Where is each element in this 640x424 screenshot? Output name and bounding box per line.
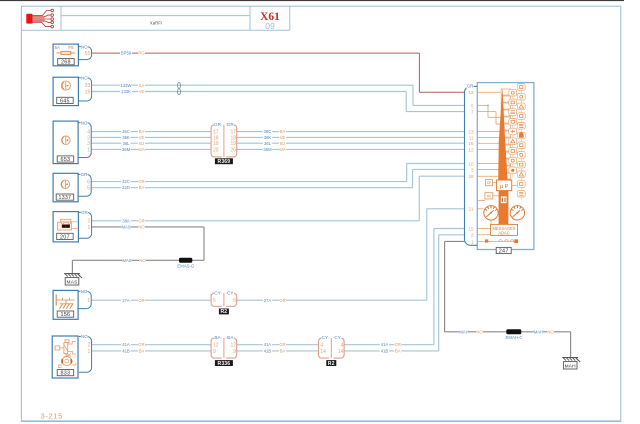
instrument cluster 247 <box>465 83 534 250</box>
svg-text:38A: 38A <box>122 218 130 223</box>
svg-text:19: 19 <box>85 89 91 95</box>
svg-text:GR: GR <box>81 172 89 177</box>
svg-text:36M: 36M <box>263 147 272 152</box>
svg-text:13: 13 <box>468 90 474 96</box>
svg-text:NO: NO <box>476 329 483 334</box>
svg-text:41A: 41A <box>122 342 130 347</box>
svg-text:NO: NO <box>138 225 145 230</box>
wire 41B BA from 833 pin1 to 247 pin2 <box>92 235 465 354</box>
svg-text:33: 33 <box>85 83 91 89</box>
svg-text:NO: NO <box>139 258 146 263</box>
svg-text:2: 2 <box>471 233 474 239</box>
svg-text:32D: 32D <box>122 185 130 190</box>
svg-text:36K: 36K <box>264 135 272 140</box>
wire 27A OR from 156 to 247 pin21 <box>92 209 465 303</box>
svg-text:NO: NO <box>81 44 88 49</box>
svg-text:BA: BA <box>214 335 221 340</box>
svg-text:NO: NO <box>81 334 88 339</box>
component 156 <box>53 289 91 320</box>
svg-text:10: 10 <box>468 161 474 167</box>
svg-text:MAS: MAS <box>121 225 130 230</box>
top black strip <box>0 0 624 1</box>
svg-text:GR: GR <box>395 342 401 347</box>
svg-text:MAS: MAS <box>122 258 131 263</box>
svg-text:F5: F5 <box>68 45 74 50</box>
svg-text:41B: 41B <box>122 348 130 353</box>
svg-text:ADAC: ADAC <box>498 230 509 235</box>
svg-text:653: 653 <box>60 157 70 163</box>
svg-text:MAH: MAH <box>565 363 577 369</box>
svg-text:GR: GR <box>138 179 144 184</box>
svg-text:19: 19 <box>213 141 219 147</box>
svg-text:GR: GR <box>279 342 285 347</box>
connector R2 (156) <box>211 290 237 315</box>
wire 32C GR from 1337 pin6 to 247 pin10 <box>92 164 465 185</box>
svg-text:15: 15 <box>468 226 474 232</box>
svg-text:EMAS-G: EMAS-G <box>177 263 195 268</box>
wire 36L BJ from 653 to 247 pin16 <box>92 141 465 146</box>
svg-text:GR: GR <box>138 342 144 347</box>
component 653 <box>53 120 91 163</box>
svg-text:36C: 36C <box>264 129 272 134</box>
cluster connector ladder <box>501 89 510 179</box>
svg-text:CY: CY <box>214 290 221 295</box>
ground MAH <box>562 358 580 370</box>
svg-text:R336: R336 <box>218 361 231 367</box>
svg-text:OR: OR <box>279 298 285 303</box>
twisted-pair symbol <box>178 83 181 95</box>
svg-text:156: 156 <box>60 312 70 318</box>
svg-text:09: 09 <box>265 21 275 31</box>
svg-text:5: 5 <box>233 298 236 304</box>
wire 32D BA from 1337 pin5 to 247 pin3 <box>92 169 465 190</box>
header title block <box>21 6 289 30</box>
svg-text:1: 1 <box>471 239 474 245</box>
svg-text:1: 1 <box>87 147 90 153</box>
ground MAS <box>64 274 82 286</box>
splice EMAS-G <box>177 258 195 269</box>
wire MAS NO from 207 pin1 to ground MAS <box>72 224 204 273</box>
header label XaRFI <box>150 21 162 26</box>
cluster side boxes <box>485 180 499 199</box>
svg-text:41A: 41A <box>264 342 272 347</box>
svg-text:NO: NO <box>81 289 88 294</box>
svg-text:5: 5 <box>471 103 474 109</box>
component 268 fuse 5A F5 <box>53 44 92 66</box>
cluster microprocessor uP <box>497 180 518 191</box>
svg-text:133K: 133K <box>121 89 131 94</box>
sheet id X61 <box>260 11 280 31</box>
svg-text:28: 28 <box>468 174 474 180</box>
connector R2 (833) <box>319 335 345 367</box>
svg-text:BA: BA <box>395 348 401 353</box>
component 207 <box>53 210 92 242</box>
svg-text:1: 1 <box>87 298 90 304</box>
svg-text:R2: R2 <box>328 361 335 367</box>
harness connector icon <box>26 9 53 28</box>
svg-text:9: 9 <box>213 349 216 355</box>
svg-text:MAS: MAS <box>67 279 78 285</box>
cluster warning-light icons <box>509 84 525 200</box>
svg-text:5: 5 <box>213 298 216 304</box>
wire MAH NO from 247 pin1 to ground MAH <box>445 241 571 357</box>
svg-text:247: 247 <box>499 248 509 254</box>
svg-text:4: 4 <box>341 343 344 349</box>
svg-text:36L: 36L <box>123 141 131 146</box>
cluster MESSAGES ADAC box <box>491 224 518 235</box>
svg-text:BA: BA <box>227 335 234 340</box>
svg-text:MAH: MAH <box>534 329 543 334</box>
svg-text:3: 3 <box>87 141 90 147</box>
svg-text:SA: SA <box>139 83 145 88</box>
wire 41A GR from 833 pin2 to 247 pin15 <box>92 229 465 348</box>
connector R336 <box>211 335 237 367</box>
svg-text:BJ: BJ <box>280 141 285 146</box>
svg-text:VE: VE <box>280 135 286 140</box>
svg-text:SP: SP <box>487 181 492 185</box>
svg-text:11: 11 <box>469 135 474 141</box>
svg-text:EMAH-C: EMAH-C <box>506 335 523 340</box>
svg-text:GR: GR <box>81 210 89 215</box>
svg-text:7: 7 <box>471 110 474 116</box>
svg-text:27A: 27A <box>122 298 130 303</box>
svg-text:1: 1 <box>88 225 91 231</box>
svg-text:1337: 1337 <box>59 195 72 201</box>
svg-text:µ P: µ P <box>500 184 509 190</box>
svg-text:XaRFI: XaRFI <box>150 21 162 26</box>
svg-text:14: 14 <box>338 349 344 355</box>
cluster gauge left <box>484 206 498 225</box>
wire 133W SA from 645 pin33 to 247 pin5 <box>92 83 465 106</box>
svg-text:MAH: MAH <box>459 329 468 334</box>
svg-text:3: 3 <box>471 167 474 173</box>
wire 36K VE from 653 to 247 pin11 <box>92 135 465 140</box>
wire 133K VE from 645 pin19 to 247 pin7 <box>92 89 465 112</box>
svg-text:207: 207 <box>60 234 70 240</box>
svg-text:BA: BA <box>139 348 145 353</box>
component 833 <box>52 334 91 378</box>
svg-text:55: 55 <box>85 51 91 57</box>
svg-text:32C: 32C <box>122 179 130 184</box>
svg-text:36C: 36C <box>122 129 130 134</box>
svg-text:GR: GR <box>467 84 474 89</box>
svg-text:41A: 41A <box>381 342 389 347</box>
svg-text:12: 12 <box>213 343 219 349</box>
svg-text:OR: OR <box>138 298 144 303</box>
svg-text:9: 9 <box>233 349 236 355</box>
svg-text:21: 21 <box>468 207 474 213</box>
svg-text:NO: NO <box>81 76 88 81</box>
svg-text:BA: BA <box>139 129 145 134</box>
svg-text:BP59: BP59 <box>121 51 132 56</box>
svg-text:GR: GR <box>227 122 235 127</box>
svg-text:5A: 5A <box>55 45 60 50</box>
svg-text:41B: 41B <box>381 348 389 353</box>
cluster label 247 <box>496 247 511 254</box>
svg-text:645: 645 <box>60 98 70 104</box>
svg-text:CY: CY <box>334 335 341 340</box>
svg-text:2: 2 <box>88 343 91 349</box>
component 1337 <box>53 172 91 202</box>
component 645 <box>53 75 92 105</box>
svg-text:Rh: Rh <box>487 195 491 199</box>
svg-text:R369: R369 <box>218 159 231 165</box>
svg-text:36K: 36K <box>122 135 130 140</box>
svg-text:BA: BA <box>280 129 286 134</box>
svg-text:NO: NO <box>547 329 554 334</box>
page number 3-215 <box>41 411 63 420</box>
svg-text:GR: GR <box>214 122 222 127</box>
svg-text:BA: BA <box>280 348 286 353</box>
svg-text:27A: 27A <box>264 298 272 303</box>
svg-text:2: 2 <box>88 219 91 225</box>
svg-text:MA: MA <box>138 147 144 152</box>
svg-text:CY: CY <box>322 335 329 340</box>
svg-text:20: 20 <box>213 147 219 153</box>
connector R369 <box>211 122 237 165</box>
wire 38A GR from 207 pin2 to 247 pin28 <box>92 176 465 223</box>
svg-text:6: 6 <box>87 180 90 186</box>
cluster pointer triangle <box>498 87 507 180</box>
svg-text:16: 16 <box>468 141 474 147</box>
svg-text:GR: GR <box>138 218 144 223</box>
svg-text:1: 1 <box>88 349 91 355</box>
wire 36M MA from 653 to 247 pin12 <box>92 147 465 152</box>
svg-text:36M: 36M <box>122 147 131 152</box>
svg-text:R2: R2 <box>221 309 228 315</box>
svg-text:CY: CY <box>227 290 234 295</box>
svg-text:NO: NO <box>81 120 88 125</box>
svg-text:20: 20 <box>230 147 236 153</box>
svg-text:3-215: 3-215 <box>41 411 63 420</box>
wire BP59 RG from 268 to 247 pin13 <box>92 51 465 93</box>
wire 36C BA from 653 to 247 pin23 <box>92 129 465 134</box>
svg-text:19: 19 <box>230 141 236 147</box>
svg-text:VE: VE <box>139 135 145 140</box>
cluster internal bus bar <box>499 191 509 225</box>
svg-text:268: 268 <box>61 60 71 66</box>
splice EMAH-C <box>506 329 523 340</box>
svg-text:12: 12 <box>468 147 474 153</box>
svg-text:BJ: BJ <box>139 141 144 146</box>
svg-text:133W: 133W <box>121 83 132 88</box>
svg-text:VE: VE <box>139 89 145 94</box>
svg-text:41B: 41B <box>264 348 272 353</box>
svg-text:5: 5 <box>87 186 90 192</box>
svg-text:12: 12 <box>230 343 236 349</box>
svg-text:23: 23 <box>468 130 474 136</box>
svg-text:RG: RG <box>138 51 144 56</box>
svg-text:4: 4 <box>320 343 323 349</box>
svg-text:36L: 36L <box>264 141 272 146</box>
cluster gauge right <box>510 206 524 220</box>
svg-text:833: 833 <box>60 371 70 377</box>
svg-text:14: 14 <box>320 349 326 355</box>
svg-text:MA: MA <box>279 147 285 152</box>
svg-text:BA: BA <box>139 185 145 190</box>
cluster internal wiring <box>478 92 518 243</box>
